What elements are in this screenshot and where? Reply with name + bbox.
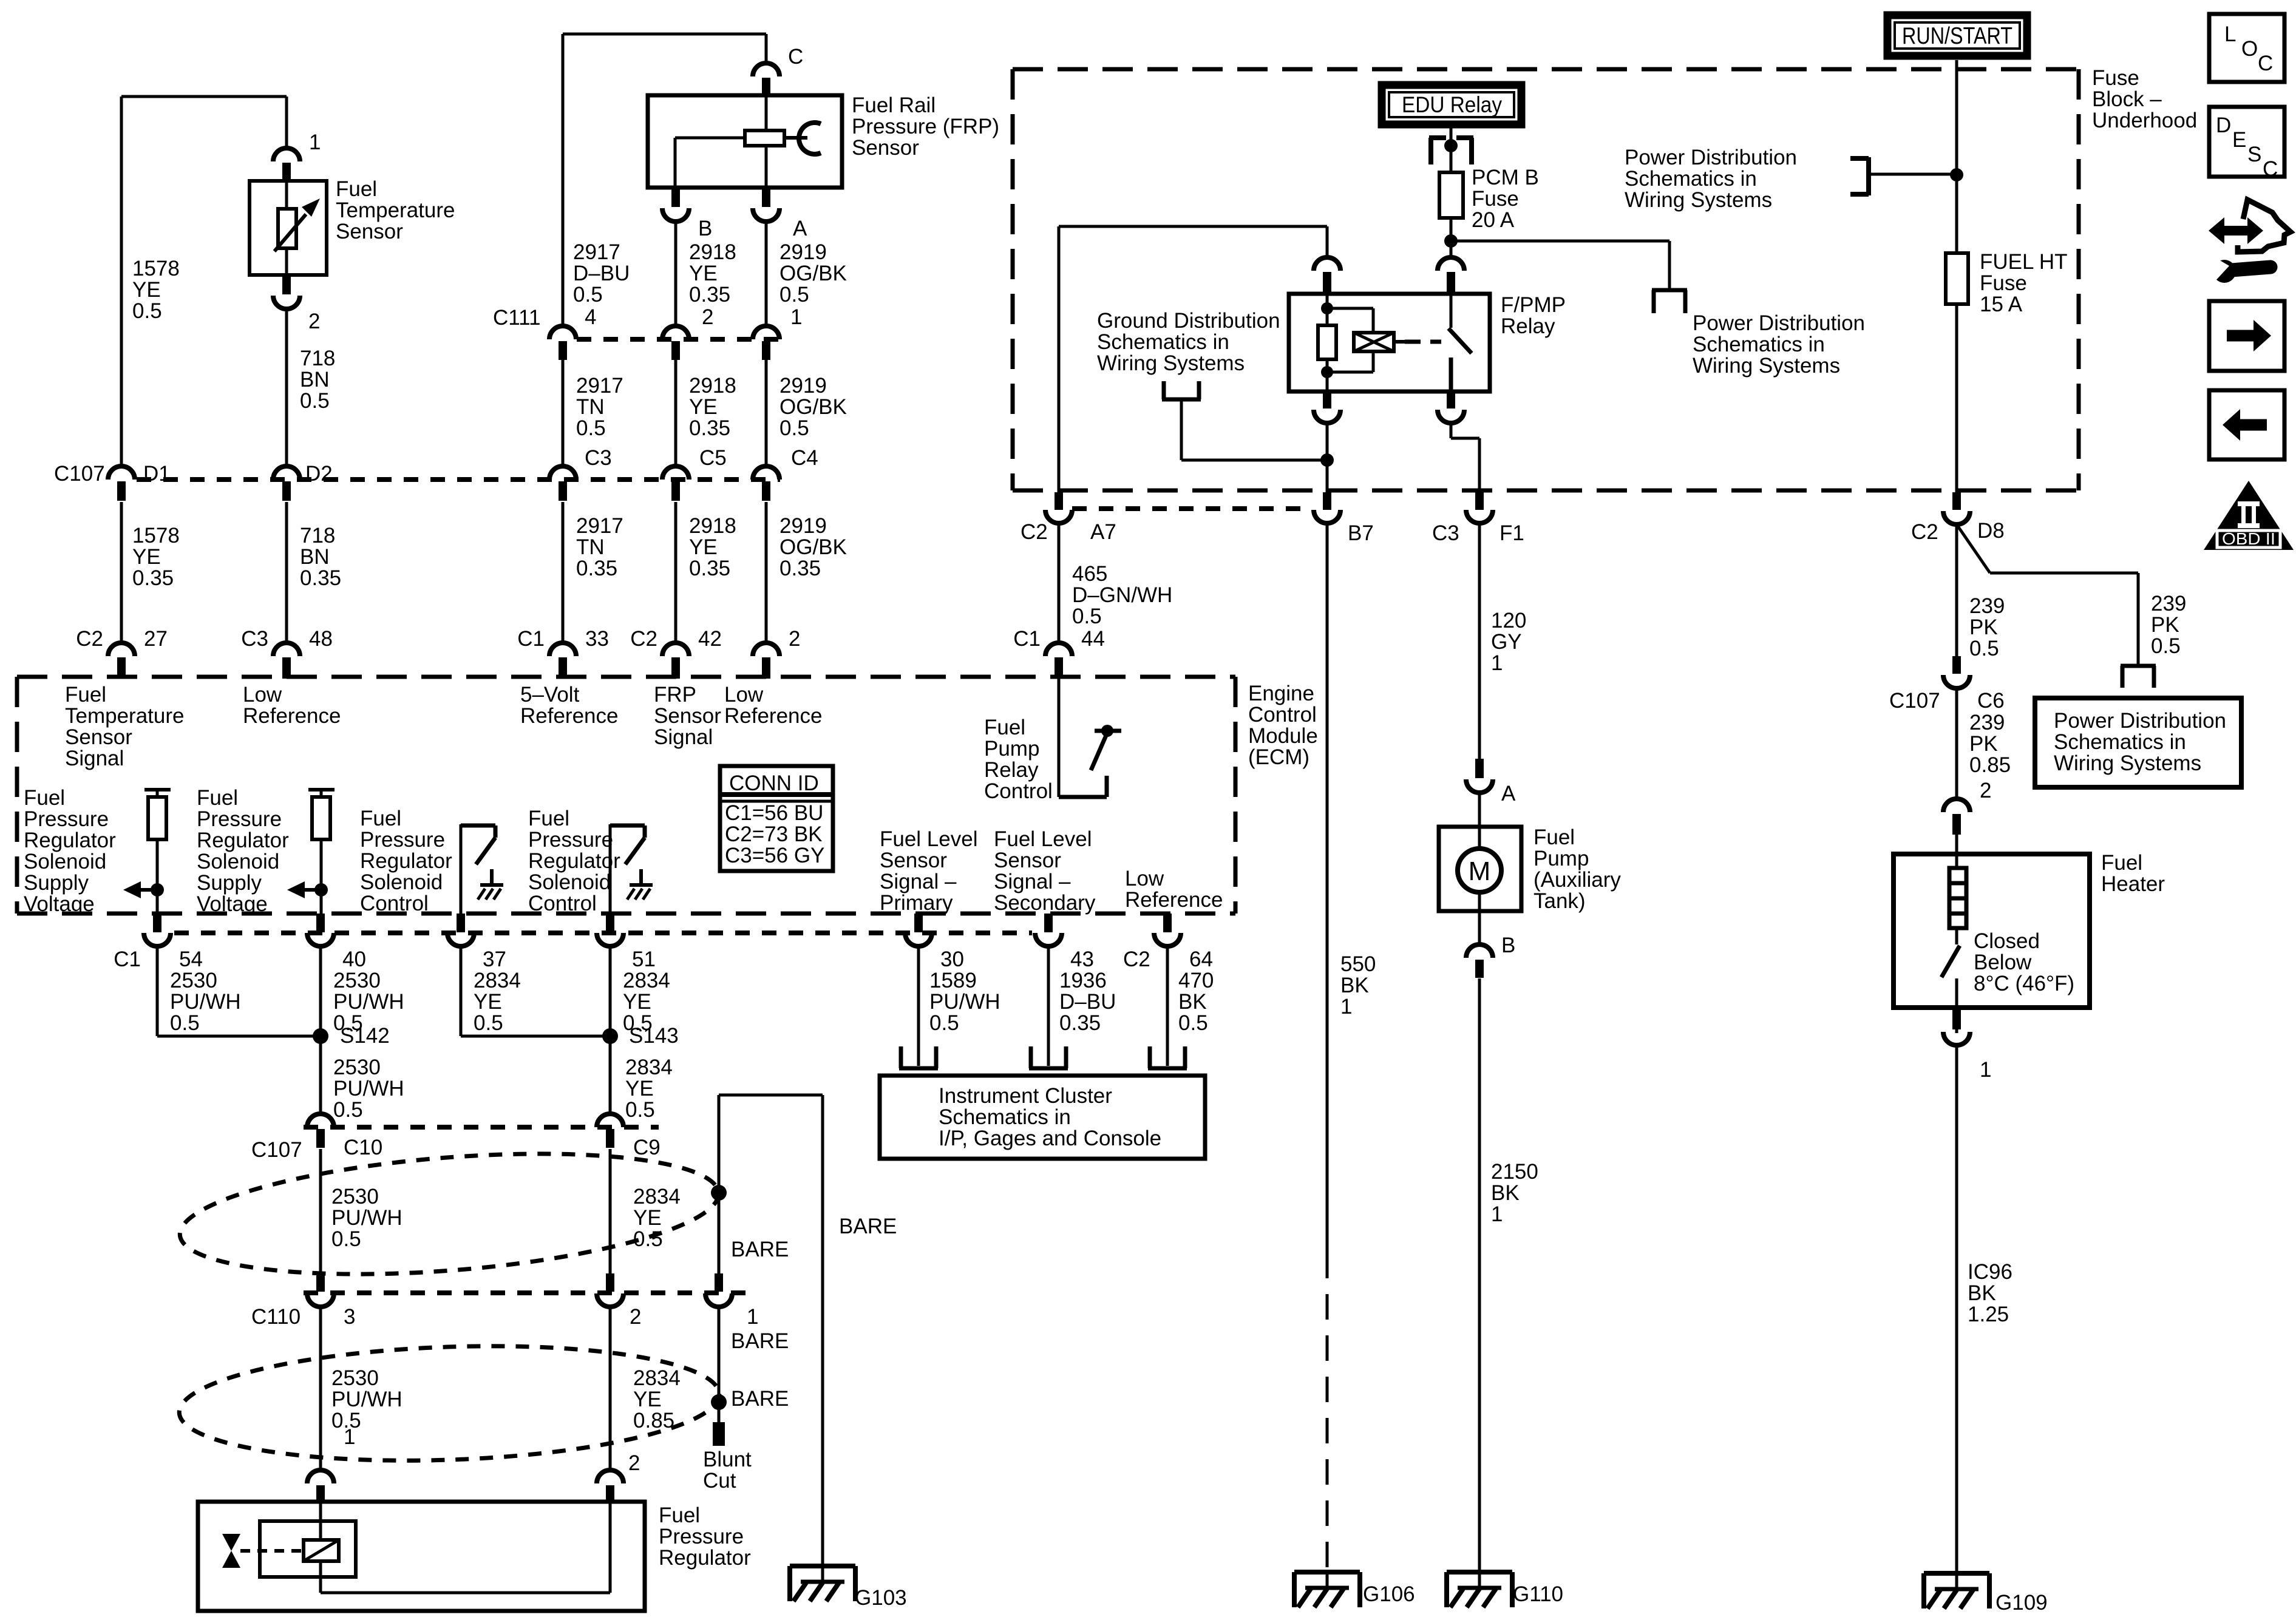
connector ECM pin 48 <box>273 643 300 656</box>
svg-text:C: C <box>788 45 803 69</box>
wire 239 PK 0.5 vertical <box>1955 524 1958 656</box>
wire bare below C110 <box>718 1307 721 1422</box>
svg-text:G103: G103 <box>855 1586 907 1610</box>
fuse block dashed outline right <box>2077 69 2081 490</box>
connector F1 <box>1475 492 1484 510</box>
wire pin54 to S142 <box>157 1035 321 1038</box>
icon arrow right box <box>2209 301 2284 371</box>
bracket power distribution top <box>1866 157 1871 195</box>
connector C107 pin C4 <box>753 466 779 480</box>
svg-text:B: B <box>698 217 712 240</box>
connector C111 pin 1 <box>753 326 779 339</box>
icon arrow left box <box>2209 390 2284 459</box>
svg-text:42: 42 <box>698 627 722 651</box>
ground G106 <box>1294 1570 1360 1575</box>
connector ECM pin 33 <box>549 643 576 656</box>
ECM internal fuel pump relay control switch <box>1058 679 1061 797</box>
connector line C107 lower <box>304 1125 659 1130</box>
svg-text:G109: G109 <box>1995 1591 2048 1615</box>
power distribution schematics box <box>2035 698 2241 787</box>
wire to power distribution bracket <box>1869 173 1957 176</box>
relay internal dashed link <box>1405 340 1441 344</box>
connector ECM pin 42 <box>662 643 689 656</box>
svg-text:G110: G110 <box>1513 1582 1563 1606</box>
wire pin51 through S143 <box>609 946 612 1114</box>
CONN ID table box <box>720 766 833 871</box>
icon OBD II pillar <box>2238 501 2260 506</box>
relay switch contact <box>1449 358 1453 392</box>
ECM dashed outline left <box>15 677 19 914</box>
FPR internal bottom wire <box>321 1592 610 1595</box>
svg-text:1: 1 <box>344 1425 355 1449</box>
svg-text:C111: C111 <box>493 306 540 330</box>
FRP internal resistor <box>745 131 784 146</box>
connector C107 pin D1 <box>108 466 135 480</box>
svg-text:B7: B7 <box>1348 521 1374 545</box>
FRP internal horizontal wire <box>675 137 745 140</box>
FRP crescent feed wire <box>784 136 807 140</box>
FRP internal wire to pin A <box>765 144 768 188</box>
connector C111 pin 4 <box>549 326 576 339</box>
fuse PCM B 20A <box>1439 172 1463 218</box>
bracket ground distribution <box>1162 381 1166 399</box>
wire 1578 YE 0.5 vertical <box>120 97 123 466</box>
CONN ID header separator <box>720 792 833 797</box>
connector ECM pin 27 <box>108 643 135 656</box>
svg-text:A7: A7 <box>1090 520 1116 544</box>
wire D8 diagonal branch <box>1957 524 1990 573</box>
wire 1578 YE 0.35 <box>120 502 123 643</box>
wire to FRP pin C <box>765 34 768 63</box>
connector C110 pin 2 <box>606 1273 614 1292</box>
svg-text:C2: C2 <box>1123 947 1150 971</box>
connector line C2 dotted fuse <box>1072 506 1311 511</box>
FPR internal wire below coil <box>319 1560 322 1593</box>
svg-text:2: 2 <box>630 1305 641 1329</box>
connector line C1 dotted <box>174 931 1032 935</box>
svg-text:C6: C6 <box>1977 689 2005 713</box>
relay solenoid X box <box>1354 333 1394 351</box>
wire RUN/START down <box>1955 60 1958 253</box>
connector relay switch top pin <box>1438 257 1464 271</box>
FPR inner solenoid box <box>260 1521 356 1577</box>
connector line C111 <box>577 337 789 342</box>
FTS internal wire bottom <box>285 247 288 275</box>
svg-text:C2: C2 <box>630 627 657 651</box>
wire relay left pin to B7 <box>1326 423 1329 492</box>
connector ECM pin 37 <box>457 914 465 932</box>
RUN/START banner box <box>1887 15 2027 56</box>
connector fuel heater pin 2 <box>1943 799 1970 812</box>
connector C107 pin C5 <box>662 466 689 480</box>
svg-text:C107: C107 <box>54 462 105 486</box>
FTS variable arrow <box>274 214 306 251</box>
instrument cluster box <box>880 1076 1205 1159</box>
wire FRP top horizontal <box>563 33 766 36</box>
junction dot ground distribution <box>1320 453 1334 467</box>
svg-text:40: 40 <box>342 947 366 971</box>
bracket instrument cluster pin 43 <box>1029 1046 1033 1068</box>
svg-text:A: A <box>793 217 807 240</box>
relay coil wire bottom <box>1326 358 1329 392</box>
ECM internal supply branch at x=259 <box>144 788 171 792</box>
svg-text:C: C <box>2263 157 2278 181</box>
svg-text:BARE: BARE <box>731 1329 789 1353</box>
svg-text:54: 54 <box>179 947 203 971</box>
wire 2918 YE 0.35 <box>674 502 678 643</box>
svg-text:C1: C1 <box>1013 627 1041 651</box>
pump internal wire top <box>1478 827 1481 851</box>
svg-text:33: 33 <box>585 627 609 651</box>
svg-text:1: 1 <box>790 305 802 329</box>
wire 2919 OG/BK 0.35 <box>765 502 768 643</box>
wire ECM 44 vertical <box>1058 226 1061 492</box>
svg-text:48: 48 <box>309 627 333 651</box>
fuse block dashed outline left <box>1011 69 1015 490</box>
wire EDU relay to fuse <box>1450 124 1453 172</box>
svg-text:1: 1 <box>747 1305 758 1329</box>
svg-text:L: L <box>2224 22 2236 46</box>
svg-text:2: 2 <box>1980 779 1991 802</box>
wire bare right vertical to G103 <box>821 1095 824 1566</box>
splice bare lower <box>711 1394 727 1410</box>
twisted pair ellipse lower <box>177 1338 721 1470</box>
FPR internal wire pin2 <box>609 1503 612 1593</box>
wire 2834 below C110 <box>609 1307 612 1470</box>
connector relay bottom right pin <box>1447 392 1455 408</box>
svg-text:C1=56 BUC2=73 BKC3=56 GY: C1=56 BUC2=73 BKC3=56 GY <box>725 801 824 867</box>
svg-text:S: S <box>2247 143 2261 166</box>
wire 2834 below C9 <box>609 1149 612 1280</box>
pump motor circle <box>1458 849 1501 892</box>
connector ECM pin 44 <box>1045 643 1072 656</box>
svg-text:RUN/START: RUN/START <box>1902 23 2012 49</box>
connector relay coil top pin <box>1314 257 1340 271</box>
wire ECM 44 to relay horizontal <box>1059 225 1327 228</box>
splice S142 <box>313 1028 328 1044</box>
FTS thermistor resistor <box>278 209 296 248</box>
wire 239 PK 0.85 <box>1955 688 1958 799</box>
ECM dashed outline right <box>1234 677 1238 914</box>
wire pump pin A <box>1478 793 1481 828</box>
bracket instrument cluster pin 64 <box>1148 1046 1152 1068</box>
wire pin 30 down <box>917 946 920 1066</box>
wire IC96 BK 1.25 <box>1955 1045 1958 1573</box>
connector line C107 <box>137 477 780 482</box>
FRP internal wire to pin B <box>674 138 677 188</box>
connector ECM pin 40 <box>316 914 325 932</box>
connector FTS pin 2 <box>282 276 291 294</box>
ground G103 <box>790 1564 855 1568</box>
svg-text:D8: D8 <box>1977 519 2005 543</box>
wire to right power distribution bracket <box>1451 240 1669 243</box>
fuel heater box <box>1894 854 2090 1008</box>
ground G110 <box>1447 1570 1512 1575</box>
svg-text:C2: C2 <box>1911 520 1938 544</box>
ECM internal control switch at x=1005 <box>609 824 612 914</box>
svg-text:CONN ID: CONN ID <box>729 771 819 795</box>
wire pump pin B <box>1478 911 1481 946</box>
svg-text:BARE: BARE <box>839 1215 897 1238</box>
relay coil resistor <box>1318 325 1336 359</box>
svg-text:C3: C3 <box>241 627 268 651</box>
connector ECM pin 54 <box>153 914 161 932</box>
svg-text:EDU Relay: EDU Relay <box>1402 92 1502 117</box>
splice S143 <box>602 1028 618 1044</box>
connector C2/D8 <box>1952 492 1961 510</box>
ECM dashed outline bottom <box>17 912 1235 916</box>
connector B7 <box>1323 492 1331 510</box>
fuse block dashed outline top <box>1013 67 2079 72</box>
wire 718 BN 0.35 <box>285 502 288 643</box>
svg-text:C4: C4 <box>791 446 818 470</box>
svg-text:2: 2 <box>628 1451 640 1475</box>
wire fuel temp sensor top horizontal <box>121 95 287 98</box>
ground G109 <box>1924 1571 1989 1576</box>
connector FPR pin 1 <box>307 1470 334 1483</box>
wire to FTS pin 1 <box>285 97 288 148</box>
relay coil junction top <box>1321 302 1333 314</box>
wire PCM B fuse down <box>1450 218 1453 257</box>
svg-text:A: A <box>1501 782 1516 805</box>
wire ground distribution L <box>1180 399 1183 460</box>
svg-text:30: 30 <box>940 947 964 971</box>
fuse block dashed outline bottom <box>1013 489 2079 493</box>
EDU Relay banner box <box>1382 85 1521 124</box>
svg-text:C107: C107 <box>1889 689 1940 713</box>
relay solenoid loop <box>1327 307 1373 310</box>
wire pin54 down <box>156 946 159 1036</box>
bracket power distribution right <box>2121 664 2156 668</box>
relay solenoid stub <box>1394 340 1405 344</box>
connector FPR pin 2 <box>597 1470 623 1483</box>
bracket power distribution mid <box>1652 288 1687 293</box>
svg-text:BARE: BARE <box>731 1387 789 1411</box>
svg-text:C5: C5 <box>699 446 727 470</box>
FPR valve symbol <box>222 1534 240 1551</box>
wire 465 D-GN/WH <box>1058 523 1061 643</box>
fuel rail pressure sensor box <box>648 95 842 188</box>
wire 718 BN 0.5 <box>285 309 288 466</box>
connector ECM pin 43 <box>1044 914 1053 932</box>
svg-text:G106: G106 <box>1363 1582 1415 1606</box>
FRP pressure port crescent <box>799 123 821 154</box>
svg-text:S143: S143 <box>629 1024 679 1048</box>
wire 2918 YE mid <box>674 360 678 466</box>
relay coil junction bottom <box>1321 366 1333 378</box>
EDU relay fuse clips <box>1429 135 1446 140</box>
icon OBD II label <box>2217 531 2280 547</box>
svg-text:44: 44 <box>1081 627 1105 651</box>
relay switch wire top <box>1450 294 1453 328</box>
wire 2919 OG/BK mid <box>765 360 768 466</box>
svg-text:2: 2 <box>308 310 320 333</box>
icon service glyph wrench <box>2232 267 2271 270</box>
FPR valve dashed link <box>240 1549 304 1553</box>
wire below FUEL HT fuse <box>1955 304 1958 492</box>
heater lower contact <box>1955 978 1958 1033</box>
connector A7 <box>1055 492 1063 510</box>
connector line C110 <box>304 1290 747 1295</box>
relay switch blade <box>1449 328 1472 353</box>
wire 120 GY 1 <box>1478 523 1481 759</box>
svg-text:O: O <box>2241 37 2258 61</box>
ECM internal switch ground at x=1005 <box>639 869 643 885</box>
pump internal wire bottom <box>1478 890 1481 911</box>
wire pin 43 down <box>1047 946 1050 1066</box>
svg-text:C3: C3 <box>1432 521 1459 545</box>
icon arrow right <box>2227 330 2254 342</box>
F/PMP relay box <box>1289 294 1490 392</box>
svg-text:M: M <box>1469 856 1491 886</box>
icon service glyph double arrow <box>2223 226 2249 236</box>
connector relay bottom left pin <box>1323 392 1331 408</box>
svg-text:S142: S142 <box>340 1024 390 1048</box>
ECM internal control switch at x=759 <box>460 824 463 914</box>
connector C107 pin C10 <box>307 1114 334 1127</box>
wire 2917 TN 0.5 <box>562 360 565 466</box>
wire 2917 D-BU upper vertical <box>562 34 565 326</box>
svg-text:C2: C2 <box>76 627 103 651</box>
FTS internal wire top <box>285 181 288 210</box>
svg-text:E: E <box>2232 128 2246 152</box>
connector fuel pump pin A <box>1475 759 1484 778</box>
connector C111 pin 2 <box>662 326 689 339</box>
junction dot EDU clip <box>1444 139 1458 152</box>
wire 2917 TN 0.35 <box>562 502 565 643</box>
svg-text:D1: D1 <box>143 462 171 486</box>
wire pin37 down <box>460 946 463 1036</box>
connector ECM pin 51 <box>606 914 614 932</box>
wire bare top horizontal <box>719 1094 823 1097</box>
svg-text:27: 27 <box>144 627 168 651</box>
svg-text:F1: F1 <box>1500 521 1524 545</box>
svg-text:1: 1 <box>1980 1058 1991 1082</box>
icon OBD II triangle <box>2204 481 2294 550</box>
connector C110 pin 3 <box>316 1273 325 1292</box>
svg-text:C10: C10 <box>344 1136 382 1159</box>
fuel pressure regulator box <box>198 1502 645 1611</box>
svg-text:OBD II: OBD II <box>2222 529 2275 548</box>
svg-text:4: 4 <box>585 305 596 329</box>
FPR coil <box>304 1540 339 1561</box>
wire bare left vertical <box>718 1095 721 1275</box>
fuel temperature sensor box <box>250 181 327 275</box>
FRP internal wire pin C <box>765 95 768 132</box>
svg-text:C107: C107 <box>251 1138 302 1162</box>
heater resistor <box>1949 868 1966 928</box>
svg-text:1: 1 <box>309 131 321 154</box>
connector FTS pin 1 <box>273 148 300 161</box>
connector ECM pin 2 <box>753 643 779 656</box>
svg-text:BARE: BARE <box>731 1238 789 1261</box>
svg-text:C3: C3 <box>585 446 612 470</box>
svg-text:2: 2 <box>702 305 713 329</box>
svg-text:3: 3 <box>344 1305 355 1329</box>
ECM dashed outline top <box>17 675 1235 679</box>
wire 2530 below C110 <box>319 1307 322 1470</box>
blunt cut terminal <box>713 1422 725 1446</box>
wire 2919 OG/BK upper <box>765 222 768 326</box>
wire into fuel heater <box>1955 835 1958 868</box>
connector fuel pump pin B <box>1466 944 1493 958</box>
wire 2530 below C10 <box>319 1149 322 1280</box>
svg-text:D2: D2 <box>305 462 333 486</box>
fuse FUEL HT 15A <box>1946 253 1968 304</box>
wire pin37 to S143 <box>461 1035 610 1038</box>
icon service glyph outline <box>2238 200 2291 252</box>
connector FRP pin A <box>762 189 770 207</box>
FPR internal wire pin1 <box>319 1503 322 1541</box>
connector C107 pin C9 <box>597 1114 623 1127</box>
connector ECM pin 30 <box>914 914 923 932</box>
icon LOC box <box>2209 14 2284 82</box>
svg-text:C1: C1 <box>517 627 545 651</box>
svg-text:64: 64 <box>1189 947 1213 971</box>
icon DESC box <box>2209 107 2284 177</box>
relay coil wire top <box>1326 294 1329 326</box>
fuel pump box <box>1439 827 1521 911</box>
wire relay coil pin down <box>1326 226 1329 259</box>
wire 2918 YE upper <box>674 222 678 326</box>
svg-text:2: 2 <box>789 627 800 651</box>
connector heater pin 1 <box>1952 1009 1961 1029</box>
svg-text:B: B <box>1501 934 1515 957</box>
junction dot below PCM B fuse <box>1444 234 1458 248</box>
connector C107 pin C3 <box>549 466 576 480</box>
svg-text:C110: C110 <box>251 1305 301 1329</box>
wire pin40 through S142 <box>319 946 322 1114</box>
svg-text:EngineControlModule(ECM): EngineControlModule(ECM) <box>1248 682 1318 769</box>
connector C110 pin 1 <box>715 1273 723 1292</box>
connector C107 pin D2 <box>273 466 300 480</box>
connector FRP pin C <box>753 63 779 76</box>
twisted pair ellipse upper <box>175 1136 723 1291</box>
svg-text:D: D <box>2216 114 2231 137</box>
ECM internal switch ground at x=759 <box>490 869 494 885</box>
wire relay right pin jog <box>1450 423 1453 438</box>
wire 550 BK 1 dashed <box>1326 1253 1329 1572</box>
svg-text:C9: C9 <box>633 1136 661 1159</box>
junction dot run/start <box>1950 168 1963 181</box>
wire 2150 BK 1 <box>1478 978 1481 1572</box>
icon arrow left <box>2240 419 2267 431</box>
wire 550 BK 1 solid <box>1326 523 1329 1253</box>
svg-text:C: C <box>2258 52 2273 75</box>
connector FRP pin B <box>671 189 680 207</box>
svg-text:51: 51 <box>632 947 656 971</box>
svg-text:37: 37 <box>483 947 506 971</box>
svg-text:43: 43 <box>1070 947 1094 971</box>
wire pin 64 down <box>1166 946 1169 1066</box>
bracket instrument cluster pin 30 <box>899 1046 903 1068</box>
connector ECM pin 64 <box>1163 914 1172 932</box>
heater switch blade <box>1955 928 1958 944</box>
connector C107/C6 <box>1952 656 1961 674</box>
svg-text:C2: C2 <box>1021 520 1048 544</box>
svg-text:C1: C1 <box>114 947 141 971</box>
splice bare upper <box>711 1185 727 1201</box>
ECM internal supply branch at x=529 <box>308 788 335 792</box>
